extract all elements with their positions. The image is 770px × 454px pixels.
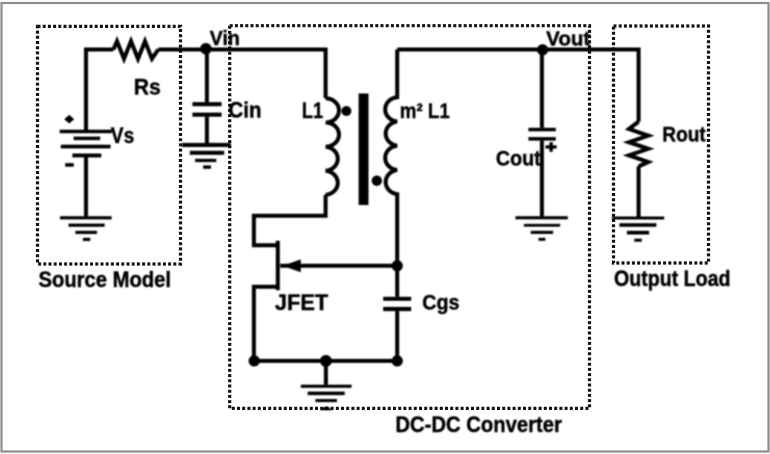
wire Cin to ground: [205, 117, 209, 143]
svg-text:Cin: Cin: [229, 97, 262, 122]
wire gate node to Cgs: [395, 266, 399, 297]
svg-text:Output Load: Output Load: [614, 266, 731, 291]
wire battery top to resistor: [86, 50, 113, 132]
node bottom middle: [320, 355, 332, 367]
svg-text:JFET: JFET: [275, 290, 329, 315]
box DC-DC Converter: [230, 26, 590, 409]
wire battery to ground: [84, 155, 88, 216]
node Vin: [200, 43, 211, 54]
wire Vout to Cout: [540, 50, 544, 128]
svg-text:Rs: Rs: [134, 75, 161, 100]
svg-text:Cgs: Cgs: [422, 291, 459, 315]
wire secondary top to Rout (through Vout): [397, 50, 638, 122]
ground middle: [301, 385, 352, 411]
svg-text:Vs: Vs: [111, 123, 135, 148]
transistor JFET channel: [276, 241, 280, 291]
wire L1 bottom to JFET drain: [254, 195, 326, 245]
svg-text:Vin: Vin: [210, 28, 240, 50]
capacitor Cin: [192, 102, 221, 117]
box Output Load: [614, 26, 709, 263]
capacitor Cgs: [383, 297, 411, 311]
node bottom right: [392, 355, 403, 366]
wire bottom rail: [254, 359, 397, 363]
phase dot secondary: [372, 176, 382, 186]
svg-text:m² L1: m² L1: [400, 100, 450, 123]
node bottom left: [249, 355, 260, 366]
svg-text:DC-DC Converter: DC-DC Converter: [395, 412, 562, 437]
polarity plus mark Cout: [546, 142, 557, 152]
node gate junction: [392, 260, 403, 271]
wire Cout to ground: [540, 141, 544, 217]
wire gate line: [280, 264, 397, 268]
svg-text:Source Model: Source Model: [39, 267, 172, 292]
wire Rout to ground: [637, 166, 641, 216]
ground under Rout: [612, 217, 664, 242]
transformer core: [359, 94, 369, 206]
resistor Rs: [113, 41, 158, 59]
resistor Rout: [629, 122, 648, 167]
node Vout: [537, 44, 548, 55]
svg-text:Cout: Cout: [496, 146, 541, 170]
svg-text:Rout: Rout: [662, 123, 706, 146]
ground under Cout: [515, 216, 567, 241]
inductor L1 primary: [326, 98, 339, 195]
wire JFET source to bottom rail: [254, 287, 277, 361]
box Source Model: [38, 26, 181, 264]
capacitor Cout: [528, 128, 555, 141]
ground under Cin: [182, 143, 231, 169]
wire resistor to L1 top (through Vin): [158, 50, 325, 99]
gate arrowhead: [283, 259, 301, 272]
ground under Vs: [60, 216, 112, 241]
svg-text:L1: L1: [302, 98, 323, 123]
inductor m2 L1 secondary: [385, 50, 397, 266]
battery Vs: [60, 115, 112, 167]
svg-text:Vout: Vout: [546, 29, 590, 51]
phase dot primary: [341, 106, 351, 116]
wire middle ground stem: [324, 361, 328, 385]
wire Cgs to bottom rail: [395, 311, 399, 361]
wire Vin to Cin: [205, 50, 209, 103]
